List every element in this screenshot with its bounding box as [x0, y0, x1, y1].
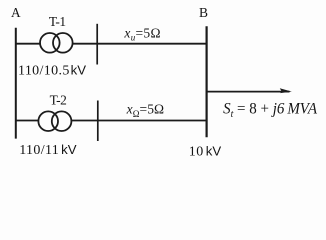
value label St = 8 + j6 MVA (load)	[223, 100, 318, 120]
label T-2	[50, 93, 67, 108]
wire bus A to transformer T-2	[15, 120, 39, 122]
value label 110/10.5 kV (T-1 ratio)	[18, 63, 86, 79]
svg-text:T-1: T-1	[49, 14, 66, 29]
svg-text:St = 8 + j6MVA: St = 8 + j6MVA	[223, 100, 318, 120]
value label 10 kV (bus B voltage)	[189, 143, 222, 159]
node A	[11, 5, 21, 20]
junction tick on T-1 branch	[96, 24, 98, 65]
label T-1	[49, 14, 66, 29]
junction tick on T-2 branch	[97, 101, 99, 142]
svg-text:xu=5Ω: xu=5Ω	[123, 25, 160, 42]
load arrow head	[280, 88, 292, 93]
svg-text:T-2: T-2	[50, 93, 67, 108]
wire T-1 to bus B	[72, 43, 206, 45]
load arrow from bus B	[207, 91, 290, 93]
svg-text:xΩ=5Ω: xΩ=5Ω	[126, 101, 165, 119]
bus A	[15, 28, 17, 139]
svg-text:110/11kV: 110/11kV	[19, 142, 77, 158]
value label xOmega = 5 ohm (T-2 reactance)	[126, 101, 165, 119]
value label 110/11 kV (T-2 ratio)	[19, 142, 77, 158]
transformer T-1	[40, 33, 73, 53]
svg-text:10kV: 10kV	[189, 143, 222, 159]
wire bus A to transformer T-1	[15, 43, 41, 45]
svg-text:A: A	[11, 5, 21, 20]
node B	[199, 5, 208, 20]
wire T-2 to bus B	[71, 120, 206, 122]
value label xu = 5 ohm (T-1 reactance)	[123, 25, 160, 42]
transformer T-2	[38, 111, 71, 131]
bus B	[206, 26, 208, 137]
svg-text:110/10.5kV: 110/10.5kV	[18, 63, 86, 79]
svg-text:B: B	[199, 5, 208, 20]
